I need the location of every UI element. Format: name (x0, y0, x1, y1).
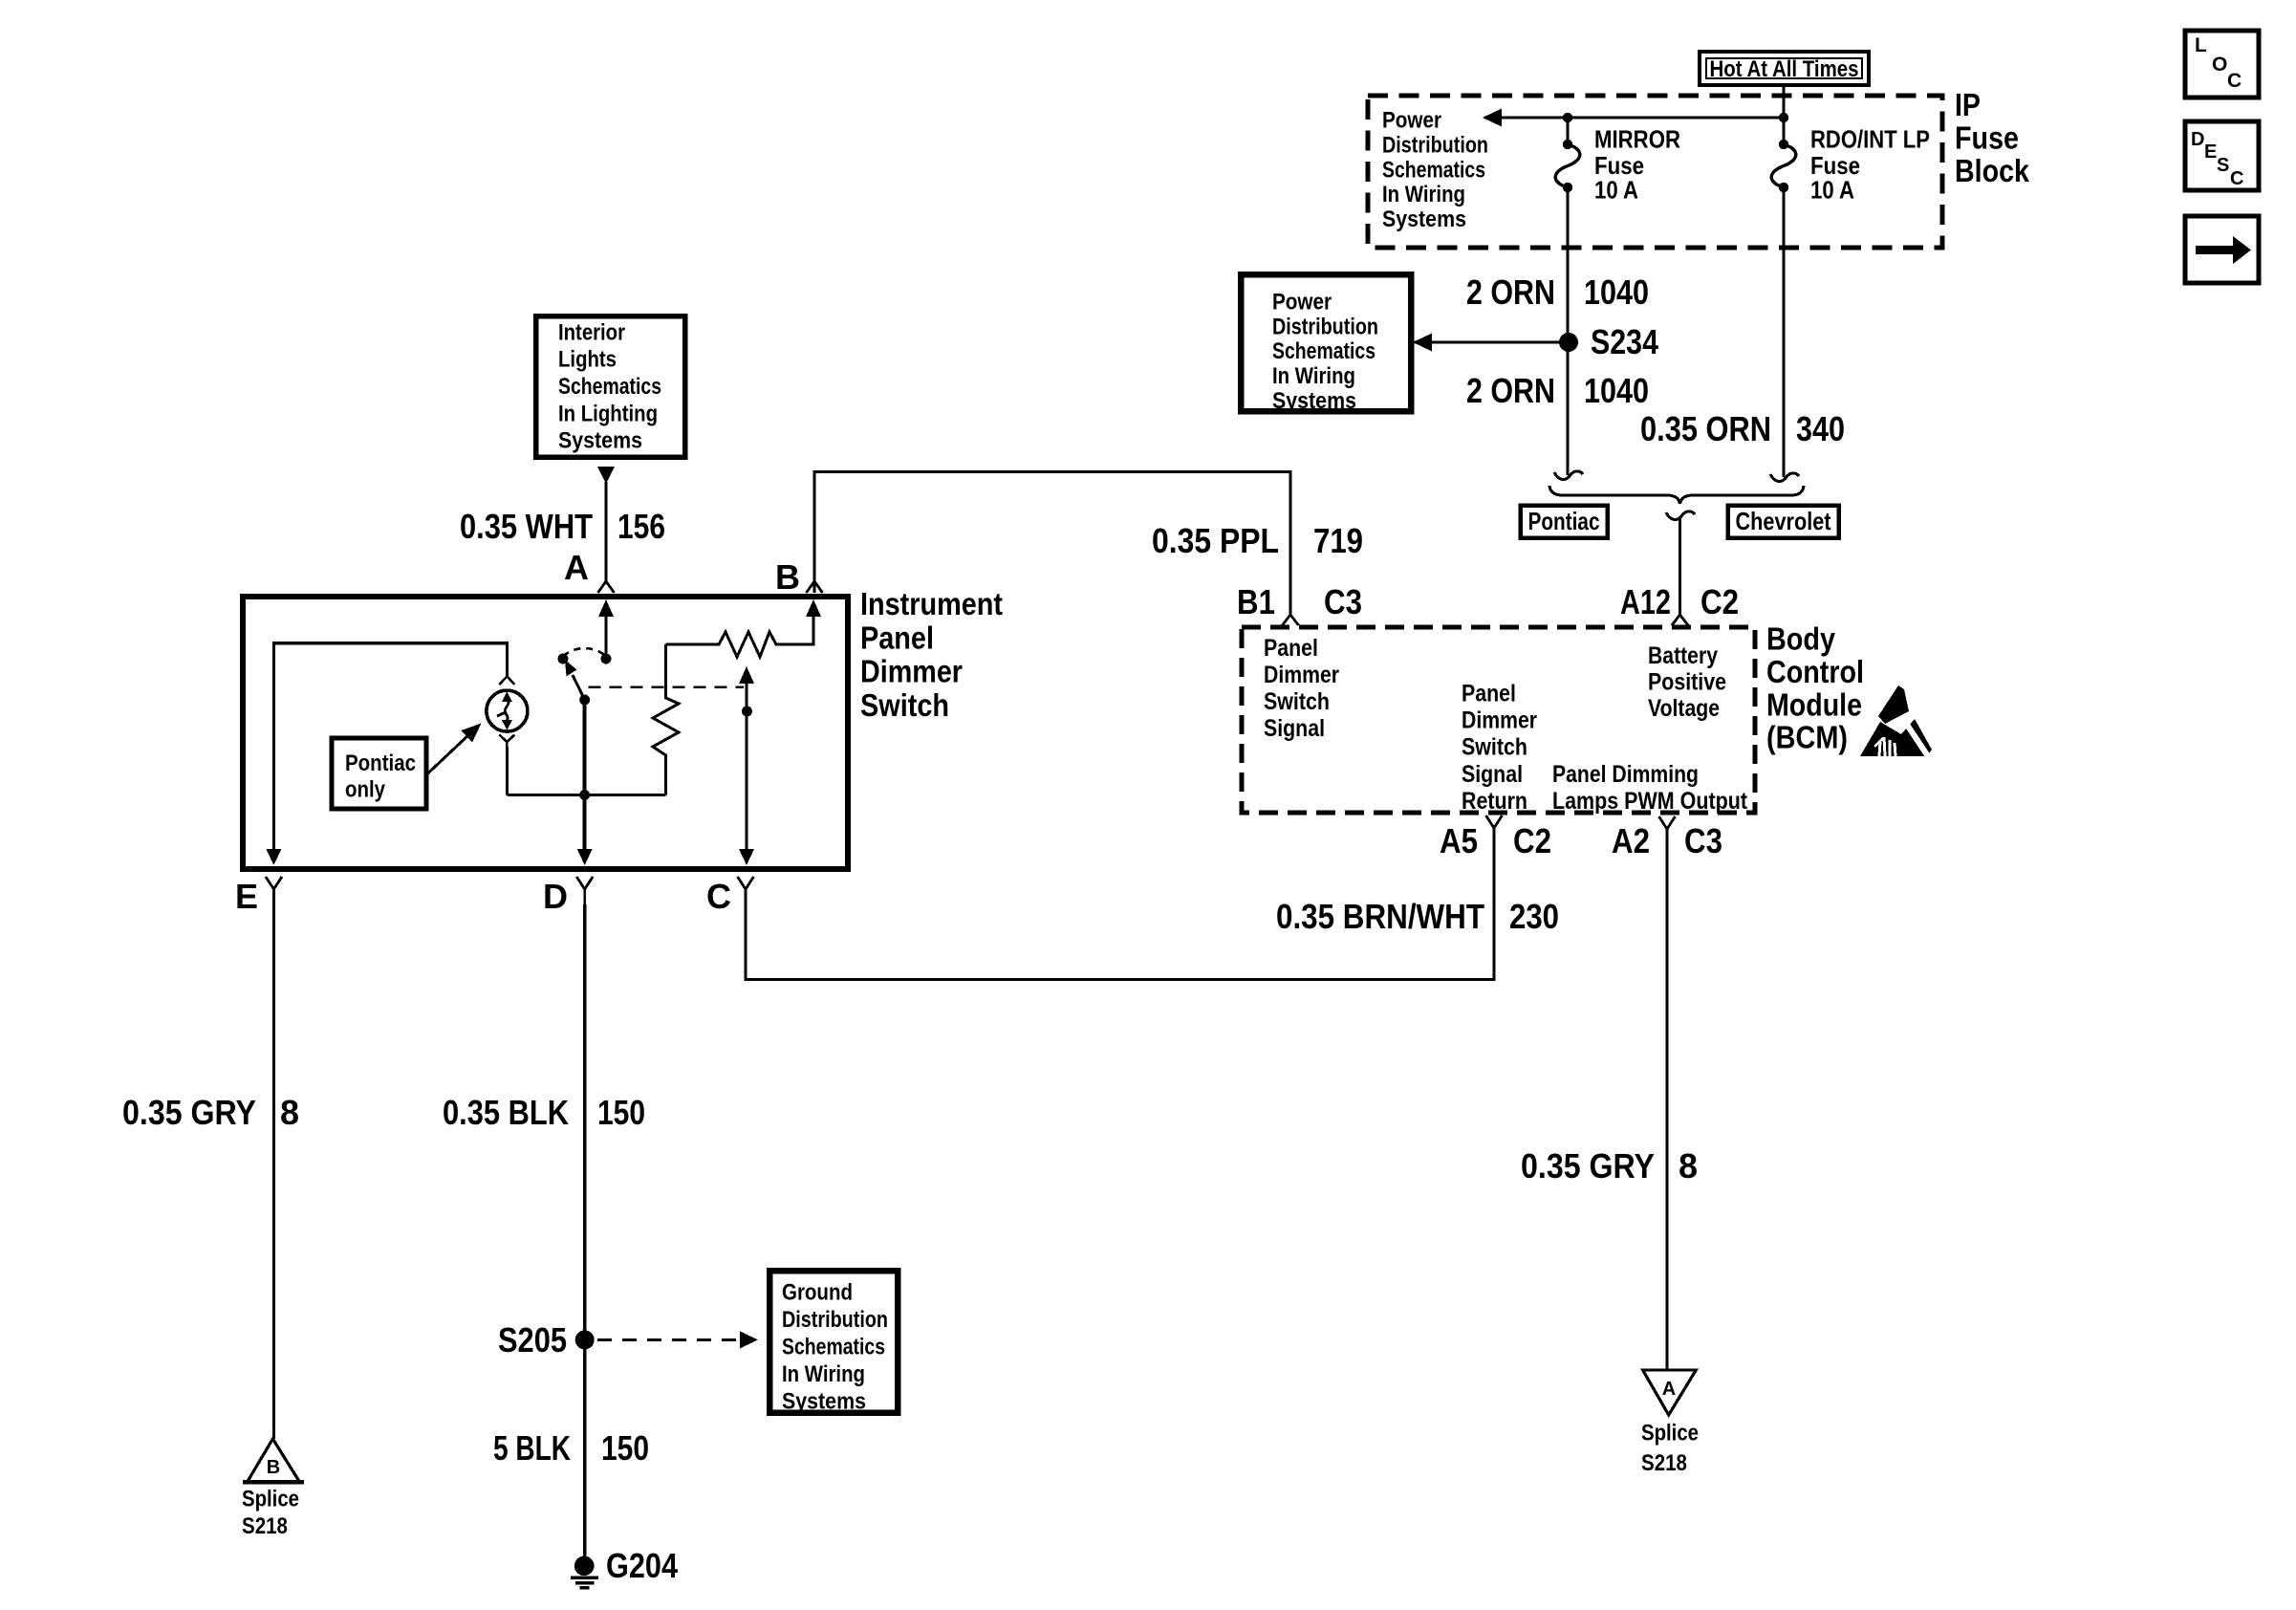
arrow: Pontiac only callout to lamp (426, 724, 482, 775)
svg-text:Lamps PWM Output: Lamps PWM Output (1552, 788, 1748, 815)
svg-text:Chevrolet: Chevrolet (1736, 507, 1831, 535)
wire label 0.35 PPL 719 (1152, 521, 1363, 560)
svg-text:A2: A2 (1612, 821, 1650, 860)
wire: bus to power distribution schematics (left arrow) (1483, 109, 1784, 127)
svg-text:Systems: Systems (1382, 207, 1466, 232)
svg-text:RDO/INT LP: RDO/INT LP (1810, 125, 1930, 154)
BCM pin text: Panel Dimmer Switch Signal (1264, 635, 1339, 742)
wire: wiper to pin D (internal, arrow down) (577, 700, 593, 865)
svg-text:S205: S205 (498, 1320, 567, 1360)
svg-text:C: C (706, 877, 731, 916)
power feed box "Hot At All Times" (1700, 52, 1869, 85)
variant box Chevrolet (1728, 506, 1839, 538)
svg-text:MIRROR: MIRROR (1594, 125, 1680, 154)
switch throw dashed arc (558, 648, 607, 664)
svg-text:Power: Power (1382, 108, 1441, 134)
svg-text:Pontiac: Pontiac (345, 751, 416, 776)
pin C connector fork (706, 877, 754, 916)
svg-text:Splice: Splice (1641, 1421, 1699, 1447)
svg-text:Switch: Switch (1462, 734, 1527, 761)
wire: lamp branch to pin E (internal, arrow down) (266, 643, 507, 865)
svg-text:1040: 1040 (1584, 272, 1649, 312)
svg-text:0.35 GRY: 0.35 GRY (122, 1093, 256, 1132)
pin B connector fork (775, 557, 823, 597)
svg-text:Splice: Splice (242, 1486, 299, 1512)
svg-text:1040: 1040 (1584, 371, 1649, 410)
svg-text:E: E (2204, 141, 2217, 163)
svg-text:In Wiring: In Wiring (782, 1361, 865, 1387)
svg-text:Dimmer: Dimmer (1264, 662, 1339, 688)
svg-text:C: C (2230, 168, 2243, 189)
BCM pin text: Battery Positive Voltage (1648, 642, 1726, 722)
reference box: Interior Lights Schematics In Lighting Systems (536, 316, 685, 458)
wire: BCM A2 output (0.35 GRY 8) (1665, 831, 1668, 1370)
svg-text:D: D (543, 877, 568, 916)
svg-text:C2: C2 (1700, 582, 1739, 621)
svg-text:C: C (2227, 70, 2242, 92)
wire label 2 ORN 1040 (lower) (1466, 371, 1649, 410)
svg-text:only: only (345, 777, 386, 803)
pin A5 C2 connector fork (1440, 816, 1551, 860)
svg-text:Body: Body (1766, 621, 1836, 657)
legend box DESC (2185, 121, 2259, 190)
svg-text:8: 8 (1679, 1146, 1698, 1186)
svg-text:150: 150 (601, 1428, 649, 1468)
svg-text:Positive: Positive (1648, 669, 1726, 696)
node: junction bus / MIRROR fuse (1563, 113, 1572, 122)
svg-text:O: O (2212, 54, 2227, 76)
reference box: Power Distribution Schematics In Wiring Systems (1241, 274, 1411, 414)
svg-text:0.35 GRY: 0.35 GRY (1521, 1146, 1655, 1186)
lamp (Pontiac only illumination bulb) (487, 676, 528, 794)
svg-text:0.35 PPL: 0.35 PPL (1152, 521, 1279, 560)
svg-text:0.35 BRN/WHT: 0.35 BRN/WHT (1276, 897, 1484, 936)
svg-text:Signal: Signal (1462, 761, 1523, 788)
svg-text:A12: A12 (1620, 582, 1671, 621)
svg-text:Interior: Interior (558, 319, 625, 345)
svg-text:S218: S218 (1641, 1450, 1687, 1476)
wire: MIRROR fuse output (circuit 1040) (1554, 187, 1583, 479)
wire: dimmer D to ground (0.35 BLK 150) (583, 904, 586, 1558)
svg-text:Panel: Panel (1462, 681, 1516, 707)
svg-text:2 ORN: 2 ORN (1466, 371, 1555, 410)
ESD sensitive device symbol (1860, 685, 1932, 756)
fuse MIRROR 10 A (1555, 125, 1680, 205)
node: junction bus / RDO fuse (1779, 113, 1788, 122)
BCM pin text: Panel Dimmer Switch Signal Return (1462, 681, 1537, 815)
svg-text:Lights: Lights (558, 347, 617, 373)
svg-text:Switch: Switch (860, 687, 949, 723)
dashed link: wiper track (589, 685, 744, 688)
wire label 5 BLK 150 (493, 1428, 649, 1468)
svg-text:A: A (564, 548, 589, 587)
svg-text:G204: G204 (606, 1546, 678, 1585)
wire label 0.35 GRY 8 (left) (122, 1093, 299, 1132)
svg-text:Systems: Systems (782, 1388, 866, 1414)
note: Power Distribution Schematics In Wiring Systems (inside fuse block) (1382, 108, 1488, 233)
svg-text:C3: C3 (1324, 582, 1362, 621)
IP Fuse Block label (1955, 87, 2030, 188)
svg-text:Schematics: Schematics (782, 1334, 885, 1360)
svg-text:156: 156 (617, 507, 665, 546)
svg-text:Fuse: Fuse (1955, 120, 2019, 156)
wire: battery feed from Hot At All Times (1782, 85, 1785, 144)
wire: tap to MIRROR fuse (1566, 118, 1569, 144)
svg-text:Switch: Switch (1264, 688, 1330, 715)
svg-text:E: E (235, 877, 258, 916)
IP fuse block (dashed box) (1368, 96, 1942, 248)
fuse RDO/INT LP 10 A (1771, 125, 1930, 205)
svg-text:8: 8 (280, 1093, 299, 1132)
svg-text:Distribution: Distribution (782, 1307, 888, 1333)
svg-text:Module: Module (1766, 686, 1862, 722)
svg-text:Panel Dimming: Panel Dimming (1552, 761, 1699, 788)
wire: rheostat wiper to pin C (internal, arrows both ends) (739, 666, 754, 865)
svg-text:Return: Return (1462, 788, 1527, 815)
variant box Pontiac (1521, 506, 1608, 538)
svg-text:0.35 WHT: 0.35 WHT (460, 507, 593, 546)
svg-text:Schematics: Schematics (1272, 338, 1375, 364)
svg-text:S: S (2217, 155, 2229, 176)
svg-text:Panel: Panel (860, 620, 934, 655)
note box: Pontiac only (332, 738, 426, 809)
svg-text:5 BLK: 5 BLK (493, 1428, 571, 1468)
wire label 0.35 ORN 340 (1640, 409, 1845, 448)
svg-text:Pontiac: Pontiac (1528, 507, 1600, 535)
splice S218 (A) (1641, 1370, 1699, 1476)
svg-text:L: L (2195, 34, 2207, 56)
svg-text:Schematics: Schematics (1382, 157, 1485, 183)
svg-text:In Wiring: In Wiring (1382, 182, 1465, 207)
arrow: S234 to power distribution reference box (1413, 334, 1569, 352)
svg-text:340: 340 (1796, 409, 1845, 448)
svg-text:A5: A5 (1440, 821, 1478, 860)
pin A2 C3 connector fork (1612, 816, 1722, 860)
svg-text:Battery: Battery (1648, 642, 1718, 669)
svg-text:B: B (267, 1457, 280, 1478)
wire: lamp bottom rail to rheostat (507, 794, 665, 796)
svg-text:B: B (775, 557, 800, 597)
pin E connector fork (235, 877, 282, 916)
svg-text:0.35 BLK: 0.35 BLK (443, 1093, 569, 1132)
pin A12 C2 connector fork (1620, 582, 1739, 625)
svg-text:2 ORN: 2 ORN (1466, 272, 1555, 312)
wire label 0.35 BRN/WHT 230 (1276, 897, 1559, 936)
svg-text:In Wiring: In Wiring (1272, 363, 1355, 389)
svg-text:10 A: 10 A (1810, 175, 1854, 204)
wire label 0.35 BLK 150 (443, 1093, 645, 1132)
svg-text:10 A: 10 A (1594, 175, 1638, 204)
wire: BCM A5 to dimmer switch C (0.35 BRN/WHT 230) (746, 830, 1494, 980)
svg-text:In Lighting: In Lighting (558, 401, 658, 426)
wire: merged feed to BCM A12 (1679, 517, 1681, 617)
svg-text:Systems: Systems (1272, 388, 1356, 414)
svg-text:230: 230 (1509, 897, 1559, 936)
svg-text:Schematics: Schematics (558, 374, 661, 400)
svg-text:Dimmer: Dimmer (1462, 707, 1537, 734)
pin B1 C3 connector fork (1237, 582, 1362, 625)
brace: harness variants merge (1549, 486, 1804, 519)
wire: RDO fuse output (circuit 340) (1770, 187, 1799, 481)
wire label 2 ORN 1040 (upper) (1466, 272, 1649, 312)
svg-text:Dimmer: Dimmer (860, 654, 963, 689)
svg-text:Power: Power (1272, 289, 1332, 315)
wire label 0.35 GRY 8 (right) (1521, 1146, 1698, 1186)
svg-text:Hot At All Times: Hot At All Times (1710, 56, 1859, 82)
svg-text:Block: Block (1955, 153, 2030, 188)
svg-text:150: 150 (597, 1093, 645, 1132)
svg-text:Distribution: Distribution (1382, 132, 1488, 158)
legend box forward arrow (2185, 216, 2259, 283)
legend box LOC (2185, 31, 2259, 98)
wire: switch common to pin A (internal, arrow up) (598, 599, 614, 664)
splice S205 (498, 1320, 595, 1360)
svg-text:D: D (2191, 129, 2204, 150)
svg-text:IP: IP (1955, 87, 1981, 122)
svg-text:S234: S234 (1591, 322, 1658, 361)
wire label 0.35 WHT 156 (460, 507, 665, 546)
ground G204 (571, 1546, 678, 1588)
dashed arrow: S205 to ground distribution box (597, 1331, 758, 1348)
BCM dashed box (1242, 627, 1755, 813)
reference box: Ground Distribution Schematics In Wiring Systems (769, 1271, 898, 1414)
svg-text:S218: S218 (242, 1513, 288, 1539)
svg-text:0.35 ORN: 0.35 ORN (1640, 409, 1771, 448)
svg-text:Distribution: Distribution (1272, 314, 1378, 339)
BCM label Body Control Module (BCM) (1766, 621, 1864, 755)
svg-text:Control: Control (1766, 654, 1864, 689)
pin A connector fork (564, 548, 615, 593)
svg-text:Signal: Signal (1264, 715, 1325, 742)
component box: Instrument Panel Dimmer Switch (243, 597, 848, 869)
svg-text:A: A (1662, 1379, 1676, 1400)
switch lever (wiper arm) (565, 660, 590, 706)
svg-text:Instrument: Instrument (860, 586, 1003, 621)
svg-text:B1: B1 (1237, 582, 1275, 621)
splice S234 (1559, 322, 1658, 361)
pin D connector fork (543, 877, 593, 916)
svg-text:Systems: Systems (558, 428, 642, 454)
splice S218 (B) (242, 1439, 304, 1539)
resistor: fixed element (horizontal) to pin B (666, 599, 821, 657)
wire: B to BCM B1 (0.35 PPL 719) (814, 471, 1290, 615)
svg-text:719: 719 (1313, 521, 1363, 560)
wire: dimmer E to splice (0.35 GRY 8) (272, 904, 275, 1439)
BCM pin text: Panel Dimming Lamps PWM Output (1552, 761, 1748, 815)
svg-text:Voltage: Voltage (1648, 695, 1720, 722)
label: Instrument Panel Dimmer Switch (860, 586, 1003, 723)
svg-text:C2: C2 (1513, 821, 1551, 860)
arrow: dimmer A to interior lights box (597, 467, 615, 581)
svg-text:C3: C3 (1684, 821, 1722, 860)
resistor: rheostat element (vertical) (653, 644, 679, 795)
svg-text:Ground: Ground (782, 1279, 853, 1305)
svg-text:(BCM): (BCM) (1766, 720, 1848, 755)
svg-text:Panel: Panel (1264, 635, 1318, 662)
